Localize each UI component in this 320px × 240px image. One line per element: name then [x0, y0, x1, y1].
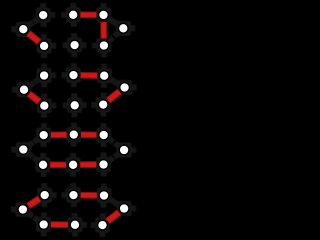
- boundary stub at M3R: [130, 147, 136, 153]
- node M2R halo: [117, 80, 132, 95]
- boundary stub at H1: [41, 231, 47, 237]
- node C2 halo: [66, 68, 81, 83]
- bond A1-A2 stubs: [49, 12, 67, 18]
- red bar E1-E2: [51, 131, 67, 138]
- node E1 halo: [36, 128, 51, 143]
- node A3 halo: [96, 7, 111, 22]
- node M3R halo: [117, 143, 132, 158]
- bond D2-D3 stubs: [81, 102, 98, 108]
- boundary stub at A1: [40, 3, 46, 9]
- node M3L halo: [16, 142, 31, 157]
- node F1 halo: [36, 157, 51, 172]
- node M4R halo: [117, 201, 132, 216]
- red bar E2-E3: [81, 131, 97, 138]
- bond M4R-H3 stubs: [107, 212, 119, 221]
- node G2 halo: [66, 188, 81, 203]
- node F2 halo: [66, 157, 81, 172]
- node D1 circle: [39, 101, 49, 111]
- bond G2-H2 stubs: [71, 201, 78, 219]
- bond A2-A3 stubs: [79, 12, 97, 18]
- node M1R circle: [118, 23, 128, 33]
- node M4R circle: [119, 204, 129, 214]
- bond M4L-H1 stubs: [28, 213, 39, 221]
- node M4L halo: [15, 202, 30, 217]
- node C1 halo: [37, 68, 52, 83]
- node B3 circle: [99, 41, 109, 51]
- node H2 halo: [68, 217, 83, 232]
- node E2 circle: [69, 130, 79, 140]
- node D3 circle: [98, 100, 108, 110]
- node F3 circle: [99, 160, 109, 170]
- node M1L halo: [16, 22, 31, 37]
- node C3 halo: [97, 68, 112, 83]
- bond D1-E1 stubs: [41, 112, 47, 129]
- boundary stub at H3: [100, 231, 106, 237]
- red bar H3-M4R: [108, 213, 119, 222]
- node E3 circle: [99, 130, 109, 140]
- red bar M4L-G1: [28, 199, 39, 206]
- red bar C2-C3: [81, 72, 97, 79]
- node G3 halo: [97, 188, 112, 203]
- node M1R halo: [116, 21, 131, 36]
- node E1 circle: [39, 130, 49, 140]
- bond M4R-G3 stubs: [109, 199, 119, 205]
- node A3 circle: [99, 10, 109, 20]
- bond M2R-C3 stubs: [109, 79, 119, 85]
- bond G1-H1 stubs: [41, 201, 48, 218]
- node M3R circle: [119, 145, 129, 155]
- bond M1L-B1 stubs: [28, 33, 39, 42]
- bond M2L-C1 stubs: [29, 79, 39, 86]
- node B2 halo: [67, 38, 82, 53]
- node M1L circle: [18, 24, 28, 34]
- bond M1R-B3 stubs: [108, 32, 118, 41]
- bond F2-F3 stubs: [79, 162, 97, 168]
- node F1 circle: [38, 160, 48, 170]
- bond M4L-G1 stubs: [28, 198, 40, 206]
- node F2 circle: [68, 160, 78, 170]
- node A1 halo: [36, 8, 51, 23]
- boundary stub at A3: [101, 3, 107, 9]
- bond G2-G3 stubs: [80, 192, 99, 198]
- boundary stub at M4R: [130, 206, 136, 212]
- bond C1-C2 stubs: [50, 72, 67, 78]
- bond A3-B3 stubs: [101, 21, 107, 40]
- boundary stub at H2: [72, 231, 78, 237]
- node G3 circle: [99, 191, 109, 201]
- boundary stub at A2: [70, 3, 76, 9]
- boundary stub at M2R: [131, 85, 137, 91]
- node M4L circle: [18, 205, 28, 215]
- bond B2-B3 stubs: [81, 42, 98, 48]
- node D1 halo: [37, 98, 52, 113]
- node D2 circle: [70, 100, 80, 110]
- red bar M2L-D1: [29, 94, 39, 102]
- red bar D3-M2R: [108, 92, 119, 101]
- node H3 circle: [98, 220, 108, 230]
- red bar A3-B3: [100, 22, 107, 38]
- node C1 circle: [39, 71, 49, 81]
- bond D3-E3 stubs: [100, 111, 106, 129]
- node D3 halo: [96, 97, 111, 112]
- red bar F2-F3: [80, 161, 96, 168]
- node E3 halo: [96, 128, 111, 143]
- bond C2-D2 stubs: [71, 81, 78, 99]
- bond E3-F3 stubs: [101, 141, 107, 159]
- node F3 halo: [96, 157, 111, 172]
- node M2L circle: [19, 85, 29, 95]
- node M3L circle: [18, 145, 28, 155]
- node G1 circle: [40, 190, 50, 200]
- node A1 circle: [38, 10, 48, 20]
- node G1 halo: [37, 188, 52, 203]
- bond E1-E2 stubs: [50, 132, 68, 138]
- node B2 circle: [70, 40, 80, 50]
- red bar G2-G3: [81, 192, 97, 199]
- bond E2-E3 stubs: [80, 132, 98, 138]
- bond G1-G2 stubs: [51, 192, 68, 198]
- red bar F1-F2: [50, 162, 66, 169]
- bond E1-F1 stubs: [40, 141, 46, 159]
- node B3 halo: [96, 38, 111, 53]
- node H1 halo: [36, 217, 51, 232]
- bond C3-D3 stubs: [100, 82, 107, 99]
- bond H2-H3 stubs: [81, 222, 97, 228]
- bond M3L-F1 stubs: [28, 153, 38, 161]
- bond F1-F2 stubs: [49, 162, 67, 168]
- bond D1-D2 stubs: [50, 102, 68, 108]
- node H3 halo: [95, 218, 110, 233]
- bond G3-H3 stubs: [100, 201, 107, 219]
- node H2 circle: [70, 220, 80, 230]
- red bar H1-H2: [51, 221, 68, 228]
- node D2 halo: [67, 98, 82, 113]
- boundary stub at M1L: [11, 26, 17, 32]
- bond M1L-A1 stubs: [28, 19, 38, 26]
- bond C1-D1 stubs: [41, 82, 47, 100]
- bond M3R-F3 stubs: [108, 153, 119, 161]
- bond M1R-A3 stubs: [108, 18, 118, 25]
- node G2 circle: [69, 190, 79, 200]
- bond E2-F2 stubs: [70, 141, 76, 159]
- bond A2-B2 stubs: [70, 21, 77, 39]
- red bar A2-A3: [80, 12, 96, 19]
- node A2 circle: [68, 10, 78, 20]
- boundary stub at M2L: [12, 87, 18, 93]
- node C2 circle: [69, 70, 79, 80]
- node B1 circle: [39, 41, 49, 51]
- bond M2R-D3 stubs: [108, 91, 120, 101]
- bond H1-H2 stubs: [50, 222, 69, 228]
- bond D2-E2 stubs: [71, 111, 78, 128]
- bond F2-G2 stubs: [70, 171, 76, 189]
- bond M2L-D1 stubs: [29, 93, 40, 102]
- bond C2-C3 stubs: [80, 72, 99, 78]
- node B1 halo: [37, 38, 52, 53]
- bond B1-B2 stubs: [50, 42, 69, 48]
- boundary stub at M3L: [11, 147, 17, 153]
- node M2R circle: [120, 83, 130, 93]
- bond F1-G1 stubs: [40, 171, 47, 189]
- node H1 circle: [39, 220, 49, 230]
- bond F3-G3 stubs: [101, 171, 107, 190]
- bond B2-C2 stubs: [71, 51, 78, 69]
- node C3 circle: [99, 71, 109, 81]
- bond M3L-E1 stubs: [28, 139, 39, 146]
- red bar M1L-B1: [28, 33, 39, 41]
- boundary stub at M4L: [11, 207, 17, 213]
- node M2L halo: [17, 82, 32, 97]
- bond M3R-E3 stubs: [109, 139, 120, 147]
- bond A1-B1 stubs: [40, 21, 47, 40]
- bond B1-C1 stubs: [41, 52, 47, 70]
- node A2 halo: [66, 7, 81, 22]
- node E2 halo: [66, 127, 81, 142]
- bond B3-C3 stubs: [101, 52, 107, 70]
- boundary stub at M1R: [129, 25, 135, 31]
